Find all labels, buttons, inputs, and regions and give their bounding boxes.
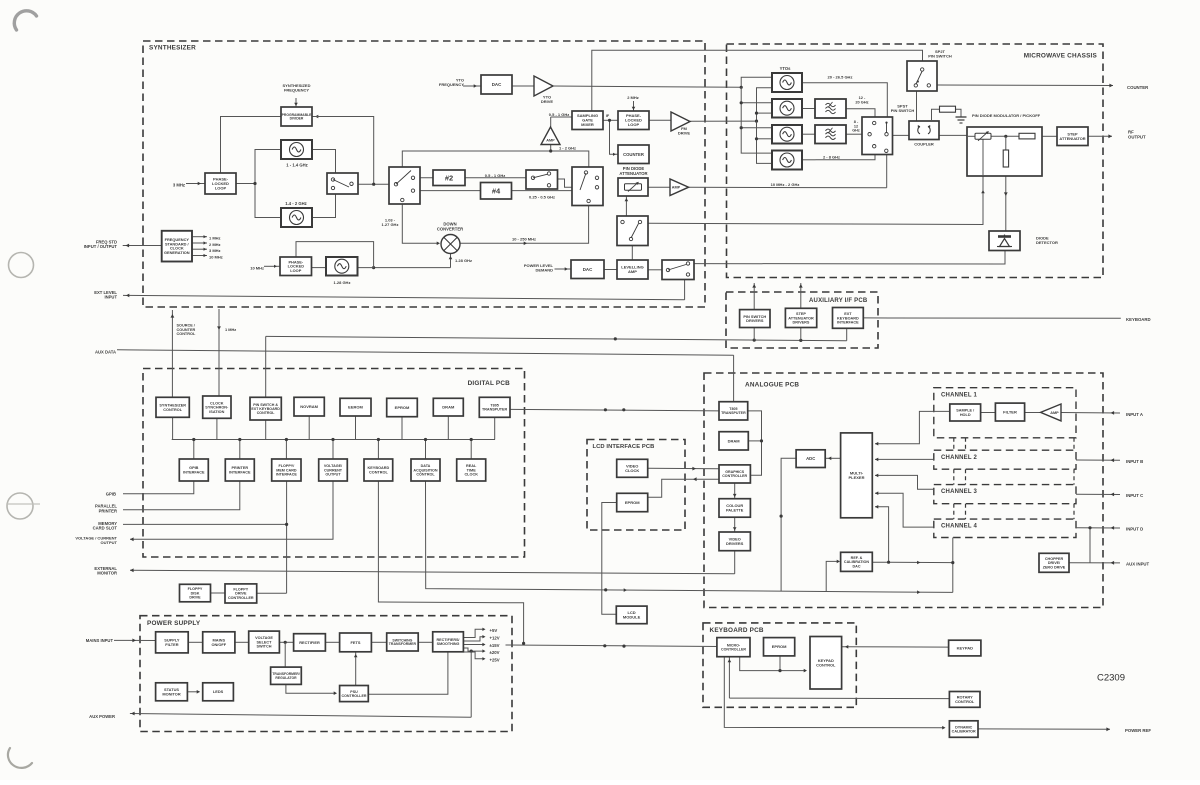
svg-text:COUPLER: COUPLER xyxy=(914,142,934,147)
svg-text:10 MHz - 2 GHz: 10 MHz - 2 GHz xyxy=(771,182,800,187)
svg-text:AUX DATA: AUX DATA xyxy=(95,350,116,355)
svg-text:ROTARYCONTROL: ROTARYCONTROL xyxy=(955,695,975,704)
svg-text:VOLTAGESELECTSWITCH: VOLTAGESELECTSWITCH xyxy=(255,636,273,649)
svg-text:PIN SWITCHDRIVERS: PIN SWITCHDRIVERS xyxy=(743,314,766,323)
svg-text:PARALLELPRINTER: PARALLELPRINTER xyxy=(95,504,117,514)
svg-text:1.28 GHz: 1.28 GHz xyxy=(455,258,472,263)
svg-text:DRAM: DRAM xyxy=(442,405,455,410)
svg-text:KEYPADCONTROL: KEYPADCONTROL xyxy=(816,658,836,667)
svg-text:AUXILIARY I/F PCB: AUXILIARY I/F PCB xyxy=(809,298,868,304)
svg-text:C2309: C2309 xyxy=(1097,672,1125,683)
svg-text:RECTIFIER: RECTIFIER xyxy=(299,640,320,645)
svg-text:EXTERNALMONITOR: EXTERNALMONITOR xyxy=(94,566,117,576)
svg-text:INPUT A: INPUT A xyxy=(1126,412,1143,417)
svg-text:GPIB: GPIB xyxy=(106,492,116,497)
svg-text:COUNTER: COUNTER xyxy=(1127,85,1149,90)
svg-text:GRAPHICSCONTROLLER: GRAPHICSCONTROLLER xyxy=(722,470,747,478)
svg-text:10 MHz: 10 MHz xyxy=(209,254,223,259)
svg-text:0.25 - 0.5 GHz: 0.25 - 0.5 GHz xyxy=(529,194,555,199)
svg-text:DIGITAL PCB: DIGITAL PCB xyxy=(468,380,511,387)
svg-text:1 - 2 GHz: 1 - 2 GHz xyxy=(559,146,576,151)
svg-text:+12V: +12V xyxy=(490,635,500,640)
svg-text:EEROM: EEROM xyxy=(348,405,363,410)
svg-text:AUX POWER: AUX POWER xyxy=(89,714,115,719)
svg-text:AMP: AMP xyxy=(546,138,555,142)
svg-text:KEYBOARD PCB: KEYBOARD PCB xyxy=(710,627,764,634)
svg-text:#4: #4 xyxy=(492,186,501,195)
svg-text:3 MHz: 3 MHz xyxy=(173,182,185,187)
svg-text:EPROM: EPROM xyxy=(625,500,640,505)
svg-text:AMP: AMP xyxy=(672,186,681,190)
svg-text:DRAM: DRAM xyxy=(728,438,741,443)
svg-text:VIDEOCLOCK: VIDEOCLOCK xyxy=(625,464,639,473)
svg-text:POWER SUPPLY: POWER SUPPLY xyxy=(147,620,201,627)
svg-text:#2: #2 xyxy=(445,173,453,182)
svg-text:0.5 - 1 GHz: 0.5 - 1 GHz xyxy=(485,173,505,178)
svg-text:COUNTER: COUNTER xyxy=(623,152,644,157)
svg-text:MAINS INPUT: MAINS INPUT xyxy=(86,638,114,643)
svg-text:MICROWAVE CHASSIS: MICROWAVE CHASSIS xyxy=(1024,52,1098,59)
svg-text:AUX INPUT: AUX INPUT xyxy=(1126,561,1150,566)
svg-text:TRANSFORMER/REGULATOR: TRANSFORMER/REGULATOR xyxy=(272,672,299,680)
svg-text:±15V: ±15V xyxy=(490,643,500,648)
svg-text:1 - 1.4 GHz: 1 - 1.4 GHz xyxy=(286,163,307,168)
svg-text:INPUT D: INPUT D xyxy=(1126,526,1143,531)
svg-text:DAC: DAC xyxy=(492,82,502,87)
svg-text:CHANNEL 1: CHANNEL 1 xyxy=(941,393,977,399)
svg-text:1.4 - 2 GHz: 1.4 - 2 GHz xyxy=(285,201,306,206)
svg-text:2 - 8 GHz: 2 - 8 GHz xyxy=(823,155,840,160)
svg-text:10 - 250 MHz: 10 - 250 MHz xyxy=(512,236,536,241)
svg-text:+25V: +25V xyxy=(490,658,500,663)
svg-text:2 MHz: 2 MHz xyxy=(209,242,221,247)
svg-text:FILTER: FILTER xyxy=(1003,410,1017,415)
svg-text:INPUT B: INPUT B xyxy=(1126,459,1143,464)
svg-text:FLOPPY/MEM CARDINTERFACE: FLOPPY/MEM CARDINTERFACE xyxy=(276,464,297,476)
svg-text:10 MHz: 10 MHz xyxy=(250,265,264,270)
svg-text:CHANNEL 3: CHANNEL 3 xyxy=(941,489,977,495)
svg-text:ANALOGUE PCB: ANALOGUE PCB xyxy=(745,381,799,388)
svg-text:CHANNEL 4: CHANNEL 4 xyxy=(941,524,977,530)
svg-text:FETS: FETS xyxy=(351,640,361,645)
svg-text:SOURCE /COUNTERCONTROL: SOURCE /COUNTERCONTROL xyxy=(177,324,196,337)
svg-text:PIN DIODEATTENUATOR: PIN DIODEATTENUATOR xyxy=(619,166,647,176)
svg-text:SYNTHESIZER: SYNTHESIZER xyxy=(149,44,196,51)
svg-text:MAINSON/OFF: MAINSON/OFF xyxy=(211,638,226,647)
svg-text:LEDS: LEDS xyxy=(213,689,224,694)
svg-text:SUPPLYFILTER: SUPPLYFILTER xyxy=(164,638,180,647)
svg-text:INPUT C: INPUT C xyxy=(1126,493,1143,498)
svg-text:1.28 GHz: 1.28 GHz xyxy=(334,280,351,285)
svg-text:1 MHz: 1 MHz xyxy=(209,236,221,241)
svg-text:STATUSMONITOR: STATUSMONITOR xyxy=(162,687,180,696)
svg-text:SWITCHINGTRANSFORMER: SWITCHINGTRANSFORMER xyxy=(389,638,417,646)
svg-text:EPROM: EPROM xyxy=(772,644,787,649)
svg-text:KEYBOARD: KEYBOARD xyxy=(1126,317,1151,322)
svg-text:COLOURPALETTE: COLOURPALETTE xyxy=(726,503,744,512)
svg-text:POWER REF: POWER REF xyxy=(1125,728,1151,733)
svg-text:3 MHz: 3 MHz xyxy=(209,248,221,253)
svg-text:0.5 - 1 GHz: 0.5 - 1 GHz xyxy=(549,112,569,117)
svg-text:KEYBOARDCONTROL: KEYBOARDCONTROL xyxy=(368,466,390,474)
svg-text:PRINTERINTERFACE: PRINTERINTERFACE xyxy=(229,466,251,474)
svg-text:LCD INTERFACE PCB: LCD INTERFACE PCB xyxy=(593,444,655,450)
svg-text:NOVRAM: NOVRAM xyxy=(300,404,318,409)
svg-text:RECTIFIERS/SMOOTHING: RECTIFIERS/SMOOTHING xyxy=(437,638,460,646)
svg-text:FREQUENCYSTANDARD /CLOCKGENERA: FREQUENCYSTANDARD /CLOCKGENERATION xyxy=(164,237,190,255)
svg-text:20 - 26.5 GHz: 20 - 26.5 GHz xyxy=(828,74,853,79)
svg-text:PIN DIODE MODULATOR / PICKOFF: PIN DIODE MODULATOR / PICKOFF xyxy=(972,113,1041,118)
svg-text:DAC: DAC xyxy=(583,267,593,272)
svg-text:YTOs: YTOs xyxy=(780,66,792,71)
svg-text:KEYPAD: KEYPAD xyxy=(957,646,973,651)
svg-text:MULTI-PLEXER: MULTI-PLEXER xyxy=(848,471,864,480)
svg-text:CHANNEL 2: CHANNEL 2 xyxy=(941,455,977,461)
svg-text:AMP: AMP xyxy=(1050,411,1059,415)
svg-text:+5V: +5V xyxy=(490,628,498,633)
svg-text:±20V: ±20V xyxy=(490,650,500,655)
svg-text:ADC: ADC xyxy=(806,456,815,461)
svg-text:2 MHz: 2 MHz xyxy=(627,95,639,100)
svg-text:VOLTAGE/CURRENTOUTPUT: VOLTAGE/CURRENTOUTPUT xyxy=(324,464,343,476)
svg-text:EPROM: EPROM xyxy=(395,405,410,410)
svg-text:1 MHz: 1 MHz xyxy=(225,327,236,332)
svg-text:SYNTHESIZEDFREQUENCY: SYNTHESIZEDFREQUENCY xyxy=(282,83,310,92)
